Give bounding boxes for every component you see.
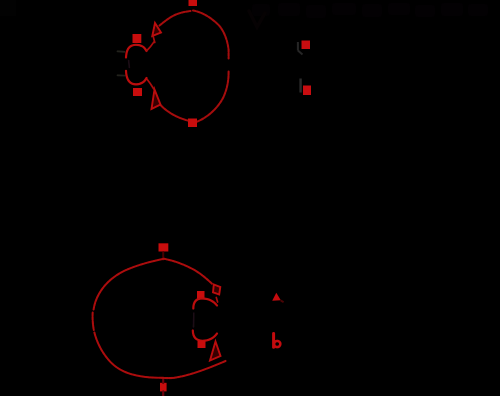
- wire ring arc bottom-right: [163, 361, 226, 378]
- corner artifact: [0, 0, 16, 16]
- wire stem above upper O: [153, 37, 155, 43]
- faint skeleton marks top strip: [252, 3, 488, 18]
- wire stem top O to ring: [162, 252, 164, 260]
- faint H stroke upper: [298, 42, 303, 55]
- atom O ring right-bottom (triangle glyph): [210, 342, 221, 361]
- carbon C2 arc (lower): [193, 331, 217, 341]
- wire stem below right-top O: [216, 298, 217, 303]
- atom O ring right-top (loop glyph): [213, 285, 220, 295]
- wire ring arc bottom-right: [198, 72, 229, 122]
- double bond tick upper: [118, 50, 125, 53]
- atom O carbonyl lower (square label): [133, 88, 142, 96]
- wire ring arc bottom-left: [94, 333, 162, 378]
- wire C1-C2 bond (faint): [128, 61, 131, 68]
- carbon C1 arc (upper): [126, 45, 147, 58]
- wire ring arc top-right: [193, 11, 229, 59]
- atom O carbonyl lower (square label): [198, 341, 206, 349]
- atom O bottom (square label): [160, 383, 167, 392]
- carbon C2 arc (lower): [126, 71, 147, 85]
- atom O top (square label): [159, 243, 169, 251]
- double bond tick lower: [118, 74, 125, 76]
- carbon C1 arc (upper): [193, 299, 217, 309]
- atom O carbonyl upper (square label): [197, 291, 205, 299]
- wire ring arc top-left: [160, 11, 191, 26]
- atom O side lower (square label): [303, 86, 311, 96]
- atom O ring upper-left (triangle glyph): [152, 23, 161, 36]
- atom O ring lower-left (triangle glyph): [152, 90, 161, 110]
- atom O side upper (wedge glyph): [272, 293, 281, 301]
- atom O top (square label): [189, 0, 198, 6]
- wire ring arc top-left: [94, 259, 164, 310]
- faint H stroke lower: [299, 79, 301, 93]
- wire ring left sliver: [93, 313, 94, 331]
- wire bond cluster to upper O: [147, 42, 155, 51]
- faint skeleton V near ring: [249, 11, 265, 27]
- atom O side lower (b-shape glyph): [272, 334, 275, 348]
- atom O bottom (square label): [188, 119, 197, 128]
- wire ring arc top-right: [164, 259, 213, 285]
- wire bond to cluster lower: [147, 79, 154, 90]
- atom O carbonyl upper (square label): [133, 34, 142, 43]
- wire C1-C2 bond (faint): [193, 313, 195, 327]
- wire stem bottom O tail: [162, 378, 164, 396]
- atom O side upper (square label): [302, 41, 311, 50]
- wire ring arc bottom-left: [161, 106, 188, 121]
